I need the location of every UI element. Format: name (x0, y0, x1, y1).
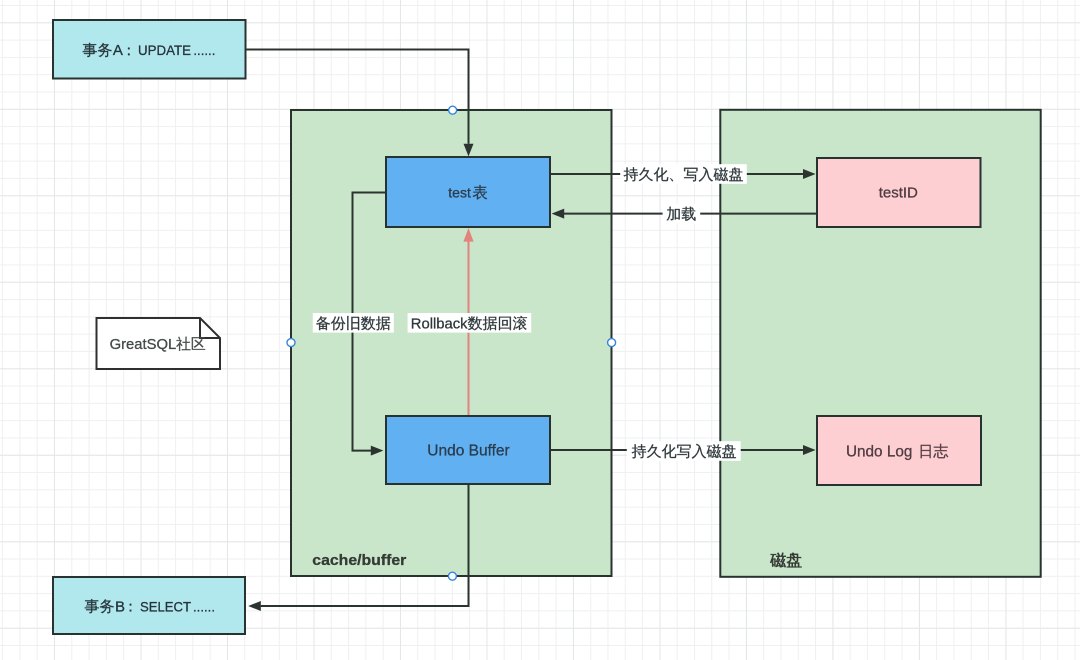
svg-text:SELECT: SELECT (140, 598, 191, 614)
svg-text:B: B (115, 598, 125, 615)
svg-text:Undo Log: Undo Log (846, 443, 912, 460)
svg-text:Undo Buffer: Undo Buffer (427, 443, 509, 460)
svg-text:UPDATE: UPDATE (138, 42, 191, 58)
svg-text:A: A (113, 42, 123, 59)
svg-text:......: ...... (193, 598, 215, 614)
svg-text:GreatSQL: GreatSQL (110, 337, 177, 353)
svg-text:cache/buffer: cache/buffer (312, 552, 406, 569)
svg-text:......: ...... (193, 42, 215, 58)
svg-text:Rollback: Rollback (411, 316, 468, 332)
svg-text:testID: testID (879, 185, 918, 202)
svg-text:test: test (448, 185, 471, 201)
